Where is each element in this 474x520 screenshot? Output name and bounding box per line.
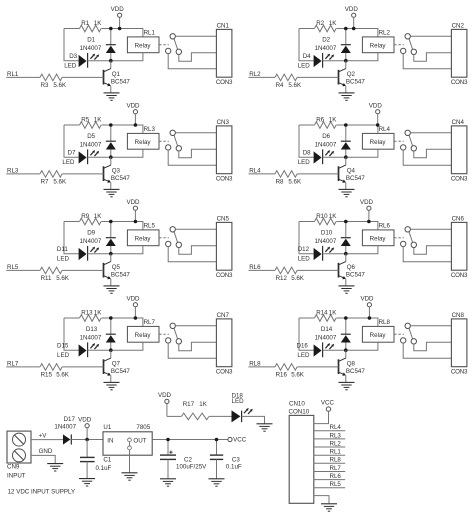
svg-text:R14: R14	[316, 309, 328, 316]
ground (emitter of Q1)	[104, 93, 120, 100]
connector CN5 CON3	[216, 215, 233, 279]
wire: top rail R1 to relay coil	[101, 29, 142, 37]
ground (emitter of Q8)	[339, 382, 355, 389]
relay RL1 contacts	[159, 34, 181, 55]
svg-text:1K: 1K	[94, 309, 102, 316]
svg-text:RL4: RL4	[379, 126, 391, 133]
svg-text:BC547: BC547	[346, 79, 365, 86]
svg-text:VCC: VCC	[233, 437, 247, 444]
svg-text:Q8: Q8	[347, 360, 356, 367]
wire: contact NO to CN4 pin 2	[414, 149, 452, 158]
node: C2 junction	[166, 438, 170, 442]
svg-text:CN3: CN3	[217, 119, 230, 126]
svg-text:1K: 1K	[329, 213, 337, 220]
wire: contact NO to CN5 pin 2	[179, 246, 217, 255]
diode D6 1N4007 (flyback)	[315, 125, 351, 157]
svg-text:Relay: Relay	[370, 139, 387, 146]
svg-text:R3: R3	[41, 82, 49, 89]
svg-text:RL7: RL7	[330, 465, 342, 472]
svg-text:D9: D9	[87, 230, 95, 237]
svg-text:CN4: CN4	[452, 119, 465, 126]
svg-text:D17: D17	[64, 416, 76, 423]
LED D16	[297, 342, 335, 359]
svg-text:LED: LED	[57, 255, 70, 262]
svg-text:R17: R17	[183, 401, 195, 408]
svg-text:VDD: VDD	[126, 199, 140, 206]
wire: LED cathode to collector node	[323, 60, 346, 62]
wire: R1 left down to LED anode	[64, 125, 79, 157]
svg-text:Relay: Relay	[135, 139, 152, 146]
svg-text:RL6: RL6	[249, 264, 261, 271]
node: collector junction	[344, 252, 348, 256]
svg-text:5.6K: 5.6K	[53, 82, 67, 89]
svg-text:C3: C3	[232, 456, 240, 463]
resistor R13 1K	[64, 309, 102, 321]
relay RL3 contacts	[159, 130, 181, 151]
svg-text:1K: 1K	[94, 116, 102, 123]
svg-text:OUT: OUT	[133, 438, 146, 445]
diode D2 1N4007 (flyback)	[315, 29, 351, 61]
svg-text:CON10: CON10	[289, 409, 310, 416]
svg-text:CON3: CON3	[216, 368, 233, 375]
wire: top rail R1 to relay coil	[336, 318, 378, 326]
node: VDD junction	[367, 220, 371, 224]
svg-text:1K: 1K	[199, 401, 207, 408]
node +V / wire CN9 to D17	[31, 432, 63, 439]
svg-text:Q5: Q5	[112, 264, 121, 271]
relay RL5 contacts	[159, 227, 181, 248]
resistor R9 1K	[64, 213, 102, 225]
svg-text:CN9: CN9	[7, 464, 20, 471]
diode D13 1N4007 (flyback)	[80, 318, 116, 350]
svg-text:CON3: CON3	[451, 175, 468, 182]
svg-text:CON3: CON3	[216, 272, 233, 279]
diode D5 1N4007 (flyback)	[80, 125, 116, 157]
node RL3 / wire CN10 pin 3	[314, 432, 345, 439]
resistor R1 1K	[64, 20, 102, 32]
ground (emitter of Q7)	[104, 382, 120, 389]
svg-text:D2: D2	[322, 37, 330, 44]
connector CN1 CON3	[216, 22, 233, 86]
node RL2 / wire CN10 pin 4	[314, 440, 345, 447]
connector CN6 CON3	[451, 215, 468, 279]
svg-text:CON3: CON3	[451, 272, 468, 279]
wire: R1 left down to LED anode	[64, 318, 79, 350]
LED D4	[298, 53, 334, 70]
relay RL2 coil	[346, 29, 394, 60]
wire: R1 left down to LED anode	[299, 125, 314, 157]
svg-text:Relay: Relay	[370, 235, 387, 242]
node: VDD junction	[134, 316, 138, 320]
node: C3 junction	[215, 438, 219, 442]
svg-text:7805: 7805	[136, 424, 150, 431]
wire: contact common to CN5 pin 1	[175, 228, 216, 230]
node RL6 (input net label)	[249, 264, 276, 271]
svg-text:R2: R2	[316, 20, 324, 27]
capacitor C2 100uF/25V	[160, 440, 207, 479]
svg-text:R1: R1	[81, 20, 89, 27]
svg-text:1N4007: 1N4007	[315, 238, 337, 245]
svg-text:D15: D15	[57, 343, 69, 350]
svg-text:VCC: VCC	[321, 400, 335, 407]
wire: R1 left down to LED anode	[64, 222, 79, 254]
svg-text:CN6: CN6	[452, 215, 465, 222]
transistor Q2 BC547	[339, 61, 366, 93]
svg-text:5.6K: 5.6K	[288, 178, 302, 185]
svg-text:LED: LED	[62, 159, 75, 166]
svg-text:Relay: Relay	[135, 42, 152, 49]
svg-text:CN1: CN1	[217, 22, 230, 29]
svg-text:5.6K: 5.6K	[56, 371, 70, 378]
svg-text:Relay: Relay	[135, 332, 152, 339]
svg-text:BC547: BC547	[111, 272, 130, 279]
capacitor C3 0.1uF	[210, 440, 242, 479]
node: R1/D1 top junction	[344, 27, 348, 31]
relay RL6 contacts	[394, 227, 416, 248]
svg-text:1K: 1K	[329, 20, 337, 27]
wire: LED cathode to collector node	[88, 253, 111, 255]
wire: contact NO to CN3 pin 2	[179, 149, 217, 158]
svg-text:100uF/25V: 100uF/25V	[176, 464, 207, 471]
svg-text:Relay: Relay	[370, 42, 387, 49]
svg-text:CON3: CON3	[216, 175, 233, 182]
diode D10 1N4007 (flyback)	[315, 222, 351, 254]
svg-text:R9: R9	[81, 213, 89, 220]
wire: contact common to CN6 pin 1	[410, 228, 451, 230]
svg-text:C2: C2	[184, 456, 192, 463]
resistor R5 1K	[64, 116, 102, 128]
wire: contact NC to CN3 pin 3	[168, 150, 216, 165]
svg-text:1N4007: 1N4007	[80, 45, 102, 52]
transistor Q1 BC547	[104, 61, 131, 93]
svg-text:5.6K: 5.6K	[291, 371, 305, 378]
ground (emitter of Q2)	[339, 93, 355, 100]
relay RL8 contacts	[394, 323, 416, 344]
svg-text:RL3: RL3	[330, 432, 342, 439]
node VCC (CN10 supply)	[314, 400, 335, 424]
svg-text:INPUT: INPUT	[7, 472, 26, 479]
svg-text:+V: +V	[39, 432, 48, 439]
node: R1/D1 top junction	[344, 220, 348, 224]
node: VDD junction	[352, 27, 356, 31]
svg-text:LED: LED	[297, 352, 310, 359]
svg-text:CN8: CN8	[452, 312, 465, 319]
node RL8 / wire CN10 pin 6	[314, 457, 345, 464]
wire: contact NC to CN4 pin 3	[403, 150, 451, 165]
resistor R2 1K	[299, 20, 337, 32]
ground (emitter of Q5)	[104, 286, 120, 293]
svg-text:R10: R10	[316, 213, 328, 220]
resistor R17 1K	[167, 401, 232, 420]
ground (D18)	[257, 424, 273, 431]
wire: U1 OUT rail to VCC	[152, 439, 228, 441]
svg-text:12 VDC INPUT SUPPLY: 12 VDC INPUT SUPPLY	[8, 489, 76, 496]
node: R1/D1 top junction	[344, 123, 348, 127]
relay RL7 contacts	[159, 323, 181, 344]
ground (U1)	[122, 473, 138, 480]
wire: LED cathode to collector node	[88, 156, 111, 158]
svg-text:1K: 1K	[329, 116, 337, 123]
LED D18	[232, 392, 253, 422]
svg-text:RL3: RL3	[7, 167, 19, 174]
wire: LED cathode to collector node	[323, 253, 346, 255]
LED D7	[62, 149, 99, 166]
wire: R1 left down to LED anode	[299, 29, 314, 61]
node RL5 (input net label)	[6, 264, 40, 271]
svg-text:RL5: RL5	[330, 481, 342, 488]
ground (CN10)	[321, 504, 337, 511]
node: VDD junction	[134, 220, 138, 224]
LED D11	[57, 246, 99, 263]
svg-text:5.6K: 5.6K	[288, 82, 302, 89]
wire: LED cathode to collector node	[88, 349, 111, 351]
wire: LED cathode to collector node	[323, 156, 346, 158]
connector CN7 CON3	[216, 312, 233, 376]
resistor R14 1K	[299, 309, 337, 321]
svg-text:CN2: CN2	[452, 22, 465, 29]
VDD power symbol (RL7 channel)	[126, 295, 140, 318]
transistor Q8 BC547	[339, 350, 366, 382]
svg-text:R13: R13	[81, 309, 93, 316]
svg-text:RL2: RL2	[379, 29, 391, 36]
svg-text:0.1uF: 0.1uF	[226, 464, 242, 471]
node: R1/D1 top junction	[109, 27, 113, 31]
resistor R16 5.6K	[275, 364, 339, 379]
svg-text:RL1: RL1	[7, 71, 19, 78]
svg-text:D1: D1	[87, 37, 95, 44]
svg-text:RL5: RL5	[144, 222, 156, 229]
svg-text:CN5: CN5	[217, 215, 230, 222]
svg-text:VDD: VDD	[126, 102, 140, 109]
svg-text:D6: D6	[322, 133, 330, 140]
ground (C2)	[160, 479, 176, 486]
svg-text:CON3: CON3	[451, 79, 468, 86]
diode D14 1N4007 (flyback)	[315, 318, 351, 350]
transistor Q7 BC547	[104, 350, 131, 382]
svg-text:VDD: VDD	[369, 102, 383, 109]
svg-text:RL1: RL1	[330, 449, 342, 456]
svg-text:LED: LED	[57, 352, 70, 359]
node RL7 (input net label)	[6, 360, 40, 367]
wire: contact NC to CN6 pin 3	[403, 247, 451, 262]
connector CN10 CON10	[289, 401, 314, 504]
svg-text:LED: LED	[298, 62, 311, 69]
relay RL8 coil	[346, 319, 394, 350]
svg-text:LED: LED	[298, 159, 311, 166]
node: collector junction	[109, 155, 113, 159]
svg-text:BC547: BC547	[346, 272, 365, 279]
node: collector junction	[109, 59, 113, 63]
wire: contact NC to CN7 pin 3	[168, 343, 216, 358]
connector CN3 CON3	[216, 119, 233, 183]
diode D17 1N4007	[54, 416, 103, 444]
svg-text:LED: LED	[232, 398, 245, 405]
LED D12	[298, 246, 334, 263]
svg-text:CON3: CON3	[451, 368, 468, 375]
LED D8	[298, 149, 334, 166]
wire: contact NC to CN2 pin 3	[403, 54, 451, 69]
svg-text:R16: R16	[276, 371, 288, 378]
wire: CN10 to ground	[314, 496, 329, 504]
resistor R3 5.6K	[40, 74, 104, 89]
svg-text:D5: D5	[87, 133, 95, 140]
svg-text:D16: D16	[297, 343, 309, 350]
LED D15	[57, 342, 99, 359]
capacitor C1 0.1uF	[80, 440, 112, 479]
resistor R4 5.6K	[275, 74, 339, 89]
VDD power symbol (RL6 channel)	[360, 199, 374, 222]
svg-text:Relay: Relay	[370, 332, 387, 339]
svg-text:R4: R4	[276, 82, 284, 89]
svg-text:D14: D14	[321, 326, 333, 333]
svg-text:RL2: RL2	[249, 71, 261, 78]
wire: LED cathode to collector node	[323, 349, 346, 351]
svg-text:RL8: RL8	[379, 319, 391, 326]
svg-text:BC547: BC547	[346, 175, 365, 182]
svg-text:D10: D10	[321, 230, 333, 237]
svg-text:VDD: VDD	[360, 199, 374, 206]
LED D3	[64, 53, 99, 70]
wire: LED cathode to collector node	[88, 60, 111, 62]
diode D9 1N4007 (flyback)	[80, 222, 116, 254]
svg-text:R11: R11	[41, 275, 52, 282]
svg-text:RL6: RL6	[330, 473, 342, 480]
svg-text:1N4007: 1N4007	[315, 45, 337, 52]
svg-text:RL7: RL7	[7, 360, 19, 367]
VDD power symbol (supply rail)	[78, 416, 92, 439]
node: VDD/D17 junction	[85, 438, 89, 442]
svg-text:RL8: RL8	[330, 457, 342, 464]
svg-text:CN10: CN10	[289, 401, 305, 408]
svg-text:D7: D7	[68, 150, 76, 157]
node: VDD junction	[368, 316, 372, 320]
svg-text:1N4007: 1N4007	[80, 238, 102, 245]
resistor R7 5.6K	[40, 171, 104, 186]
svg-text:LED: LED	[298, 255, 311, 262]
svg-text:RL8: RL8	[249, 360, 261, 367]
ground (CN9 GND)	[47, 464, 63, 471]
transistor Q6 BC547	[339, 254, 366, 286]
svg-text:R5: R5	[81, 116, 89, 123]
svg-text:RL5: RL5	[7, 264, 19, 271]
node: VDD junction	[118, 27, 122, 31]
svg-text:1N4007: 1N4007	[315, 334, 337, 341]
node RL4 / wire CN10 pin 2	[314, 424, 345, 431]
wire: contact common to CN1 pin 1	[175, 35, 216, 37]
svg-text:RL7: RL7	[144, 319, 156, 326]
node RL1 (input net label)	[6, 71, 40, 78]
node RL2 (input net label)	[249, 71, 276, 78]
svg-text:Q4: Q4	[347, 167, 356, 174]
ground (C3)	[209, 479, 225, 486]
node: collector junction	[344, 155, 348, 159]
node RL5 / wire CN10 pin 9	[314, 481, 345, 488]
relay RL3 coil	[111, 126, 159, 157]
wire: contact common to CN4 pin 1	[410, 132, 451, 134]
svg-text:C1: C1	[103, 456, 111, 463]
node RL8 (input net label)	[249, 360, 276, 367]
node RL3 (input net label)	[6, 167, 40, 174]
relay RL7 coil	[111, 319, 159, 350]
svg-text:5.6K: 5.6K	[291, 275, 305, 282]
wire: contact common to CN8 pin 1	[410, 325, 451, 327]
wire: contact common to CN3 pin 1	[175, 132, 216, 134]
wire: contact NO to CN8 pin 2	[414, 342, 452, 351]
relay RL4 contacts	[394, 130, 416, 151]
ground (emitter of Q3)	[104, 189, 120, 196]
connector CN8 CON3	[451, 312, 468, 376]
VDD power symbol (RL4 channel)	[369, 102, 383, 125]
VDD power symbol (RL8 channel)	[360, 295, 374, 318]
relay RL1 coil	[111, 29, 159, 60]
svg-text:1N4007: 1N4007	[80, 334, 102, 341]
svg-text:CON3: CON3	[216, 79, 233, 86]
wire: contact NC to CN8 pin 3	[403, 343, 451, 358]
svg-text:R15: R15	[41, 371, 53, 378]
wire: top rail R1 to relay coil	[101, 222, 142, 230]
svg-text:D13: D13	[86, 326, 98, 333]
svg-text:D3: D3	[69, 53, 77, 60]
ground (C1)	[79, 479, 95, 486]
transistor Q4 BC547	[339, 157, 366, 189]
svg-text:CN7: CN7	[217, 312, 230, 319]
svg-text:Q6: Q6	[347, 264, 356, 271]
svg-text:R8: R8	[276, 178, 284, 185]
wire: top rail R1 to relay coil	[101, 318, 142, 326]
wire: contact NC to CN1 pin 3	[168, 54, 216, 69]
svg-text:VDD: VDD	[78, 416, 92, 423]
svg-text:0.1uF: 0.1uF	[96, 465, 112, 472]
wire: top rail R1 to relay coil	[101, 125, 142, 133]
wire: R1 left down to LED anode	[299, 318, 314, 350]
node: R1/D1 top junction	[344, 316, 348, 320]
svg-text:RL2: RL2	[330, 440, 342, 447]
node GND / wire CN9 to ground	[31, 448, 55, 464]
connector CN9 (screw terminal, 12V input)	[7, 431, 31, 479]
svg-text:RL6: RL6	[379, 222, 391, 229]
svg-text:Relay: Relay	[135, 235, 152, 242]
wire: R1 left down to LED anode	[64, 29, 79, 61]
svg-text:Q1: Q1	[112, 71, 121, 78]
svg-text:BC547: BC547	[346, 368, 365, 375]
node: collector junction	[109, 348, 113, 352]
svg-text:D12: D12	[298, 246, 310, 253]
svg-text:1K: 1K	[94, 213, 102, 220]
svg-text:VDD: VDD	[360, 295, 374, 302]
wire: contact common to CN2 pin 1	[410, 35, 451, 37]
wire: contact NO to CN1 pin 2	[179, 53, 217, 62]
VDD power symbol (RL5 channel)	[126, 199, 140, 222]
transistor Q3 BC547	[104, 157, 131, 189]
svg-text:RL1: RL1	[144, 29, 156, 36]
svg-text:IN: IN	[107, 438, 113, 445]
svg-text:GND: GND	[39, 448, 53, 455]
resistor R8 5.6K	[275, 171, 339, 186]
node RL7 / wire CN10 pin 7	[314, 465, 345, 472]
wire: contact NO to CN7 pin 2	[179, 342, 217, 351]
svg-text:1N4007: 1N4007	[80, 141, 102, 148]
VDD power symbol (RL2 channel)	[345, 6, 359, 29]
svg-text:VDD: VDD	[111, 6, 125, 13]
wire: contact NO to CN6 pin 2	[414, 246, 452, 255]
node: collector junction	[344, 59, 348, 63]
svg-text:R12: R12	[276, 275, 288, 282]
resistor R12 5.6K	[275, 267, 339, 282]
resistor R15 5.6K	[40, 364, 104, 379]
label: 12 VDC INPUT SUPPLY	[8, 489, 76, 496]
node: collector junction	[344, 348, 348, 352]
wire: top rail R1 to relay coil	[336, 125, 378, 133]
